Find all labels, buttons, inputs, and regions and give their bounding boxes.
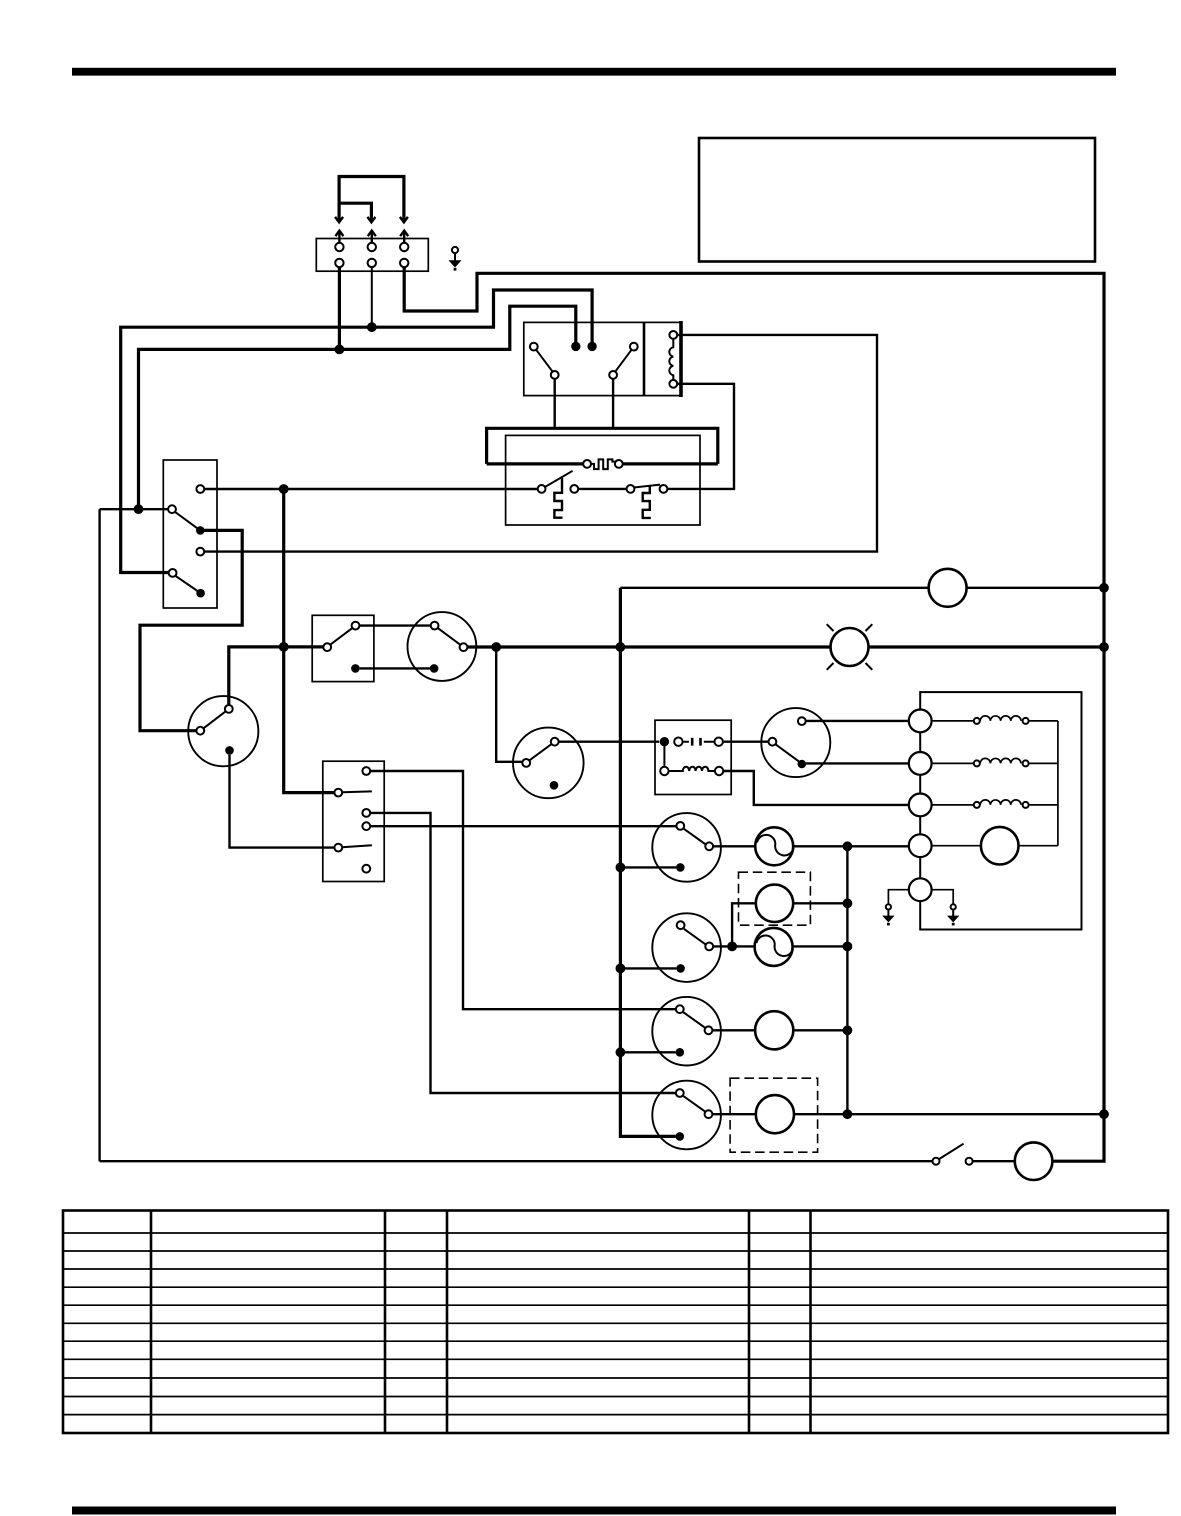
contactor divider	[643, 322, 646, 395]
K5 coil stub from center column	[620, 1051, 675, 1053]
disconnect contact circles	[933, 1158, 940, 1165]
wire L3 from terminal 6 right side feeder to right bus	[404, 265, 1104, 1161]
contactor coil terminal circles	[669, 331, 677, 339]
wire timer coil output down and right to motor terminal 3	[723, 771, 909, 805]
terminal block TB1	[316, 239, 428, 272]
S2 blade	[330, 628, 352, 645]
S3 output wire across to right bus with lamp	[467, 645, 830, 648]
junction center column / K5 stub	[616, 1047, 626, 1057]
K3 contact circles	[676, 822, 684, 830]
defrost timer box with capacitor and coil	[655, 720, 731, 794]
K4 output wire with overload	[713, 945, 756, 947]
K6 coil contact dot	[676, 1132, 685, 1141]
disconnect switch blade	[939, 1144, 963, 1159]
S2 lower contact dot	[351, 664, 360, 673]
compressor motor box	[920, 692, 1081, 929]
S3 contact circles	[431, 622, 439, 630]
RC1 left link down to K4 output	[732, 903, 756, 946]
K5 contact circles	[676, 1005, 684, 1013]
S4 t5 blade stub	[342, 845, 372, 847]
fan relay K4 (circle)	[652, 913, 721, 982]
contactor fixed contact dots	[571, 342, 580, 351]
junction S3 output / main center column	[616, 642, 626, 652]
start motor row with circle	[932, 845, 1058, 847]
heater element feeder row	[487, 462, 584, 465]
junction K5 row / relay bus	[843, 1025, 853, 1035]
wire A: relay contact K1a to left junction column	[139, 306, 576, 509]
RC1 right wire to relay bus	[793, 902, 847, 904]
up arrow 1	[335, 231, 343, 244]
left outer wire down to bottom rail	[98, 509, 100, 1161]
rotary switch S3 (circle)	[408, 612, 477, 681]
left feed wire to selector c2	[100, 508, 169, 510]
overload protector OL1 (sine circle)	[755, 827, 794, 865]
contactor left switch blade	[536, 350, 552, 372]
heater limit switch 1 blade (open)	[545, 471, 572, 487]
thermal fuse terminal circles	[583, 460, 591, 468]
selector c2 lower contact dot	[196, 526, 205, 535]
heater limit switch 2 blade (closed)	[634, 485, 660, 488]
down arrowhead 1	[335, 217, 343, 222]
K2 lower contact dot	[798, 760, 807, 769]
run capacitor RC1 circle	[756, 885, 793, 922]
up arrow 2	[368, 231, 376, 244]
selector c2 blade to lower contact	[175, 512, 197, 528]
junction on wire A at terminal-4 feeder	[335, 345, 345, 355]
terminal block circles	[335, 243, 343, 251]
evaporator row wire: corner to small switch box	[229, 647, 323, 709]
junction K6 row / relay bus end	[843, 1109, 853, 1119]
junction RC1 / relay bus	[843, 898, 853, 908]
selector contact circles	[196, 485, 204, 493]
junction center column / K4 stub	[616, 964, 626, 974]
S3 blade	[438, 628, 461, 645]
junction S3 row / right bus	[1099, 642, 1109, 652]
S2 lower wire to S3 lower contact	[360, 667, 430, 669]
S4 contact circles	[362, 767, 370, 775]
junction condenser row / right bus	[1099, 583, 1109, 593]
motor terminal circles	[909, 710, 932, 733]
S2 contact circles	[323, 643, 331, 651]
capacitor C1 leads	[683, 741, 715, 743]
wire disconnect to alarm bell	[973, 1160, 1015, 1162]
fan switch dead contact dot	[225, 746, 234, 755]
wire from selector c1 to heater control switch	[204, 488, 538, 490]
thermostat switch TH1 (circle)	[513, 728, 584, 799]
contactor coil	[669, 339, 673, 380]
heater element 2 zigzag	[643, 486, 651, 518]
K6 output row to right bus	[713, 1113, 756, 1115]
defrost relay switch K2 (circle)	[761, 708, 830, 777]
S3 lower contact dot	[430, 664, 439, 673]
selector c4 dead contact dot	[196, 589, 205, 598]
condenser fan row wire with motor circle	[620, 587, 928, 589]
junction K6 row / right bus	[1099, 1109, 1109, 1119]
contactor box right edge (thick)	[679, 321, 683, 397]
wire from fan switch contact to selector-2 t5	[230, 755, 335, 848]
wire K2 upper contact to motor terminal 1	[806, 720, 909, 722]
wire contactor coil bottom to heater switch row	[667, 384, 734, 489]
right relay bus down to bottom feed	[846, 846, 848, 1114]
chassis ground symbol near terminal block	[449, 247, 462, 271]
bottom rail with disconnect and alarm	[100, 1160, 933, 1162]
K5 coil contact dot	[676, 1048, 685, 1057]
down arrowhead 2	[367, 217, 375, 222]
K3 output wire with overload to motor terminal 4	[713, 845, 756, 847]
middle column wire from c1 junction down to selector-2 t2	[284, 489, 335, 793]
K3 coil contact dot	[676, 863, 685, 872]
junction middle column / evaporator row	[279, 642, 289, 652]
selector c4 blade to lower dead contact	[176, 576, 198, 591]
heater switch contact circles	[538, 485, 546, 493]
K5 output wire with heater relay coil circle	[713, 1029, 756, 1031]
junction wire A end on c2 feed	[134, 504, 144, 514]
K3 coil stub from center column	[620, 866, 676, 868]
contactor right switch drop to heater loop	[612, 379, 614, 429]
jumper loop wires above terminal block	[339, 177, 404, 223]
heat relay K5 (circle)	[652, 997, 721, 1066]
K5 feed wire from selector-2 t1	[370, 771, 676, 1009]
pilot lamp LT1	[827, 624, 873, 670]
K2 blade	[776, 744, 799, 761]
aux circle AC1 in dashed box	[756, 1095, 794, 1133]
K4 coil contact dot	[676, 964, 685, 973]
ground symbol right	[947, 904, 959, 925]
run capacitor dashed box 1	[739, 872, 811, 925]
timer contact circles	[674, 738, 682, 746]
fan motor switch M1 (circle)	[188, 696, 258, 766]
junction K4 output / RC1 link	[727, 942, 737, 952]
heater element 1 zigzag	[554, 478, 562, 518]
heater box	[506, 435, 700, 525]
vertical link input to coil row	[663, 742, 665, 767]
aux relay K6 (circle)	[652, 1081, 721, 1150]
thermostat dead contact dot	[550, 781, 559, 790]
K3 blade	[684, 829, 706, 845]
K3 feed wire from selector-2 t4	[370, 825, 676, 827]
top rule bar	[72, 68, 1116, 76]
legend table	[63, 1211, 1168, 1434]
legend box (empty)	[699, 138, 1095, 262]
K5 blade	[683, 1012, 705, 1028]
wire capacitor to defrost relay contact	[723, 741, 769, 743]
capacitor C1 plates	[692, 738, 700, 746]
thermal fuse element squiggle	[591, 459, 616, 469]
heater loop outer wire	[487, 428, 718, 464]
compressor relay K3 (circle)	[652, 813, 721, 882]
drop wire from S3 output to thermostat	[496, 647, 522, 762]
winding row 2	[932, 758, 1058, 763]
junction K4 row / relay bus	[843, 942, 853, 952]
timer coil L2 (bumps)	[669, 767, 715, 771]
contactor left switch drop to heater loop	[554, 379, 556, 429]
heater relay coil HR1 (circle)	[755, 1011, 793, 1049]
K6 contact circles	[676, 1089, 684, 1097]
junction S3 output / thermostat drop	[491, 642, 501, 652]
junction center column / K3 stub	[616, 863, 626, 873]
K6 blade	[683, 1096, 705, 1112]
K6 feed wire from selector-2 t3	[370, 813, 676, 1093]
internal bus of motor box	[1057, 721, 1059, 846]
junction c1-wire / middle column	[279, 484, 289, 494]
K4 coil stub from center column	[620, 967, 676, 969]
S4 t2 blade stub	[342, 790, 372, 793]
K2 contact circles	[769, 738, 777, 746]
winding row 3	[932, 800, 1058, 805]
ground lead right under motor box	[932, 890, 954, 904]
fan switch blade	[204, 711, 226, 728]
contactor box K1	[524, 322, 681, 395]
run capacitor dashed box 2	[730, 1078, 818, 1152]
ground lead left under motor box	[888, 890, 909, 904]
wire B: relay contact K1b to selector contact c4	[121, 290, 592, 573]
center column wire (main control bus)	[620, 588, 675, 1137]
bottom rule bar	[72, 1507, 1116, 1515]
K4 blade	[684, 929, 706, 945]
contactor switch contact circles	[530, 343, 538, 351]
wire L1 from terminal 4 down to junction on wire A	[338, 265, 341, 349]
overload protector OL2 (sine circle)	[755, 928, 794, 966]
up arrow 3	[400, 231, 408, 244]
condenser fan motor B1	[929, 569, 967, 607]
K4 contact circles	[677, 921, 685, 929]
junction K3 row / right relay bus	[843, 841, 853, 851]
staircase wire from c2 contact to fan switch	[140, 530, 242, 730]
junction dot timer input	[660, 737, 669, 746]
main selector switch box S1	[163, 460, 217, 608]
thermostat blade	[530, 744, 552, 760]
contactor right switch blade	[615, 350, 631, 372]
start winding motor circle	[981, 827, 1019, 865]
S2 upper wire to rotary switch S3	[359, 624, 430, 626]
alarm bell circle	[1015, 1142, 1053, 1180]
junction on wire B at terminal-5 feeder	[367, 322, 377, 332]
wire K2 lower contact to motor terminal 2	[806, 762, 909, 764]
thermostat contact circles	[522, 759, 530, 767]
wire L2 from terminal 5 down to junction on wire B	[371, 265, 373, 327]
down arrowhead 3	[400, 217, 408, 222]
ground symbol left	[882, 904, 894, 925]
selector switch box S4 (mode selector)	[323, 761, 384, 881]
fan switch contact circles	[196, 727, 204, 735]
wire thermostat to capacitor box	[559, 741, 660, 743]
wire from selector c3 to contactor coil (right bus 877)	[204, 335, 877, 552]
small defrost timer switch box S2	[312, 615, 374, 681]
winding row 1	[932, 716, 1058, 721]
heater row wire between switches	[578, 488, 626, 490]
